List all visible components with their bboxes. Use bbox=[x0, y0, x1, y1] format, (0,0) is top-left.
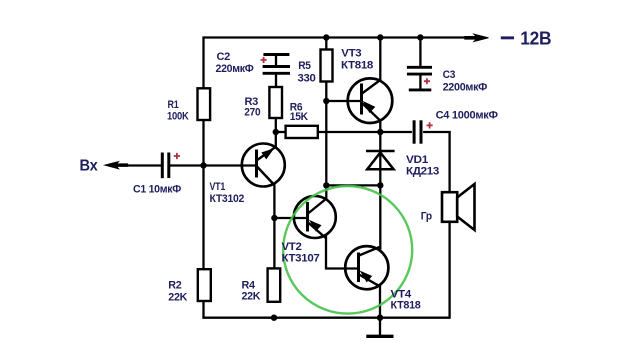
wire horizontal node link bbox=[326, 184, 380, 186]
capacitor C4 bbox=[414, 120, 421, 143]
svg-text:КД213: КД213 bbox=[406, 166, 439, 178]
node junction C4 line bbox=[377, 129, 383, 135]
resistor R6 bbox=[286, 126, 318, 138]
supply arrow bbox=[465, 34, 489, 41]
wire R5 bottom to VT3 base node bbox=[325, 82, 327, 102]
wire speaker bottom lead bbox=[448, 222, 450, 319]
node junction R5-VT3 base bbox=[323, 98, 329, 104]
capacitor C1 plus mark bbox=[174, 153, 180, 159]
wire node to VT2 collector bbox=[325, 185, 327, 200]
wire C2 to R3 bbox=[275, 73, 277, 87]
wire VT1 base lead bbox=[204, 164, 257, 166]
node junction R4 bottom bbox=[271, 315, 277, 321]
transistor VT4 bbox=[345, 246, 388, 289]
label supply dash bbox=[501, 36, 514, 39]
node junction rail-C3 bbox=[417, 34, 423, 40]
svg-text:C2: C2 bbox=[217, 51, 231, 63]
node junction rail-VT3 bbox=[377, 34, 383, 40]
wire VT3 collector to rail bbox=[379, 38, 381, 81]
transistor VT3 emitter arrow bbox=[364, 102, 374, 112]
wire R5 top lead bbox=[325, 38, 327, 50]
node junction mid link left bbox=[323, 182, 329, 188]
svg-text:VT3: VT3 bbox=[341, 48, 361, 60]
svg-text:100K: 100K bbox=[167, 111, 189, 123]
svg-text:12В: 12В bbox=[520, 28, 551, 49]
node junction ground bbox=[377, 315, 383, 321]
transistor VT4 emitter arrow bbox=[361, 272, 371, 282]
svg-text:КТ818: КТ818 bbox=[391, 299, 421, 311]
capacitor C3 plus mark bbox=[424, 78, 430, 84]
wire R6 to C4 horizontal bbox=[318, 131, 412, 133]
svg-text:C3: C3 bbox=[443, 69, 456, 81]
wire VT3 base lead bbox=[326, 100, 361, 102]
capacitor C2 bbox=[263, 55, 290, 74]
wire left rail middle (R1 to R2) bbox=[202, 120, 204, 269]
wire left rail upper (rail to R1) bbox=[202, 36, 204, 88]
transistor VT1 emitter arrow bbox=[262, 149, 273, 158]
node junction rail-R5 bbox=[323, 34, 329, 40]
wire VT2 emitter to VT4 base bbox=[326, 235, 359, 269]
wire middle vertical node to lower node bbox=[325, 101, 327, 185]
svg-text:VT2: VT2 bbox=[282, 241, 302, 253]
svg-text:R1: R1 bbox=[168, 99, 179, 111]
svg-text:Гр: Гр bbox=[421, 211, 433, 223]
transistor VT2 emitter arrow bbox=[310, 221, 320, 231]
wire input line arrow to C1 bbox=[127, 164, 162, 166]
resistor R1 bbox=[198, 88, 211, 120]
wire speaker top lead / C4 right wire bbox=[423, 132, 450, 192]
node junction diode bottom bbox=[377, 182, 383, 188]
transistor VT3 bbox=[348, 78, 393, 123]
speaker Гр bbox=[442, 184, 475, 230]
svg-text:C4 1000мкФ: C4 1000мкФ bbox=[436, 109, 498, 121]
wire C3 bottom lead bbox=[419, 74, 421, 90]
svg-text:КТ818: КТ818 bbox=[341, 60, 373, 72]
green highlight circle bbox=[283, 186, 412, 314]
capacitor C1 bbox=[162, 153, 169, 179]
svg-text:220мкФ: 220мкФ bbox=[216, 63, 254, 75]
wire bottom rail bbox=[202, 317, 449, 319]
svg-text:R2: R2 bbox=[168, 280, 181, 292]
diode VD1 bbox=[366, 151, 395, 169]
wire R3 bottom lead bbox=[275, 118, 277, 132]
wire diode node to VT4 collector bbox=[379, 185, 381, 249]
wire C2 stub bbox=[275, 55, 277, 67]
svg-text:Вх: Вх bbox=[80, 157, 98, 174]
svg-text:КТ3107: КТ3107 bbox=[282, 253, 320, 265]
node junction input bbox=[200, 162, 206, 168]
resistor R3 bbox=[269, 87, 282, 118]
svg-text:2200мкФ: 2200мкФ bbox=[443, 82, 488, 94]
svg-text:R4: R4 bbox=[242, 279, 256, 291]
transistor VT1 bbox=[242, 144, 285, 187]
input arrow Вх bbox=[105, 162, 128, 169]
transistor VT2 bbox=[294, 196, 336, 238]
svg-text:330: 330 bbox=[298, 73, 316, 85]
wire VT2 base lead bbox=[274, 217, 307, 219]
wire C3 top lead bbox=[419, 38, 421, 67]
resistor R5 bbox=[321, 50, 333, 82]
resistor R2 bbox=[198, 269, 211, 301]
wire VT4 emitter to bottom rail bbox=[379, 285, 381, 318]
node junction R3-R6-VT1 bbox=[273, 129, 279, 135]
ground bbox=[366, 318, 393, 337]
svg-text:15K: 15K bbox=[290, 111, 308, 123]
wire R6 left lead to node bbox=[276, 131, 286, 133]
wire C1 to junction bbox=[170, 164, 204, 166]
wire VT1 emitter down to R4 bbox=[273, 185, 275, 269]
node junction VT2 base bbox=[271, 215, 277, 221]
svg-text:С1 10мкФ: С1 10мкФ bbox=[133, 183, 181, 195]
svg-text:22K: 22K bbox=[168, 291, 187, 303]
svg-text:КТ3102: КТ3102 bbox=[210, 193, 245, 205]
svg-text:22K: 22K bbox=[242, 291, 261, 303]
capacitor C4 plus mark bbox=[427, 122, 433, 128]
capacitor C3 bbox=[407, 67, 432, 90]
svg-text:R5: R5 bbox=[298, 60, 311, 72]
wire top supply rail bbox=[204, 36, 465, 38]
svg-text:270: 270 bbox=[244, 107, 260, 119]
capacitor C2 plus mark bbox=[261, 57, 267, 63]
svg-text:VT1: VT1 bbox=[210, 181, 226, 193]
resistor R4 bbox=[268, 268, 281, 301]
wire left rail lower (R2 to bottom rail) bbox=[202, 301, 204, 318]
svg-text:VD1: VD1 bbox=[406, 154, 428, 166]
wire VT1 collector lead bbox=[275, 132, 277, 148]
wire VT3 emitter / diode branch bbox=[379, 121, 381, 186]
